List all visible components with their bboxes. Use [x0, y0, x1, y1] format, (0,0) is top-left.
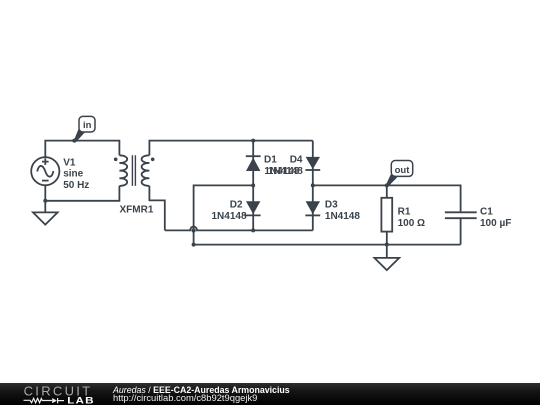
transformer phase dot secondary: [151, 158, 155, 162]
wire bridge bottom rail with hop over vertical: [165, 226, 313, 230]
transformer XFMR1: [119, 155, 149, 186]
wire D4-D3 junction to out node and C1 top: [313, 185, 461, 211]
node out flag: [386, 161, 413, 187]
wire R1 ground stub: [386, 245, 388, 258]
junction V1 bottom: [43, 199, 47, 203]
wire V1 top to transformer primary top: [45, 141, 119, 158]
wire transformer secondary top to bridge top rail: [149, 141, 312, 156]
ground (below R1): [374, 258, 399, 270]
wire out node to R1 top: [386, 185, 388, 197]
node in flag: [74, 116, 95, 142]
svg-text:1N4148: 1N4148: [325, 211, 360, 222]
transformer phase dot primary: [114, 158, 118, 162]
junction at in node: [72, 139, 76, 143]
voltage source V1: [31, 157, 59, 185]
svg-text:D1: D1: [264, 154, 277, 165]
junction D1-D2 midpoint: [251, 183, 255, 187]
junction ground rail corner: [192, 243, 196, 247]
diode D4: [305, 141, 320, 186]
svg-text:1N4148: 1N4148: [212, 211, 247, 222]
wire bottom ground rail: [194, 244, 461, 246]
diode D2: [245, 185, 261, 230]
junction R1 bottom: [385, 243, 389, 247]
wire R1 bottom to ground rail: [386, 232, 388, 245]
svg-text:100 Ω: 100 Ω: [398, 218, 425, 229]
svg-text:in: in: [83, 120, 92, 131]
wire V1 bottom to ground node: [44, 185, 46, 201]
wire D1-D2 junction to ground rail (vertical): [194, 185, 254, 244]
footer logo waveform: [24, 398, 65, 403]
svg-text:100 µF: 100 µF: [480, 218, 511, 229]
svg-text:http://circuitlab.com/c8b92t9q: http://circuitlab.com/c8b92t9qgejk9: [113, 392, 257, 403]
junction bridge top at D1: [251, 139, 255, 143]
svg-text:50 Hz: 50 Hz: [63, 180, 89, 191]
svg-text:out: out: [395, 165, 411, 176]
label V1 name/value: [63, 157, 89, 191]
svg-text:XFMR1: XFMR1: [120, 205, 154, 216]
svg-text:C1: C1: [480, 206, 493, 217]
resistor R1: [381, 198, 392, 232]
diode D1: [246, 141, 261, 186]
wire C1 bottom to ground rail: [460, 219, 462, 245]
junction D4-D3 midpoint: [311, 183, 315, 187]
svg-text:sine: sine: [63, 169, 83, 180]
diode D3: [305, 185, 320, 230]
svg-text:D3: D3: [325, 199, 338, 210]
svg-text:D4: D4: [290, 154, 303, 165]
svg-text:V1: V1: [63, 157, 76, 168]
svg-text:R1: R1: [398, 206, 411, 217]
junction D2 bottom: [251, 228, 255, 232]
svg-text:1N4148: 1N4148: [268, 166, 303, 177]
capacitor C1: [445, 212, 477, 218]
junction out node: [385, 183, 389, 187]
ground (below V1): [33, 212, 58, 224]
svg-text:D2: D2: [230, 199, 243, 210]
svg-text:LAB: LAB: [67, 397, 95, 405]
wire V1 ground stub: [44, 201, 46, 212]
junction at hop crossing: [191, 228, 195, 232]
footer bar: [0, 383, 540, 405]
wire ground node to transformer primary bottom: [45, 186, 119, 201]
wire transformer secondary bottom to bridge bottom rail: [149, 186, 164, 231]
